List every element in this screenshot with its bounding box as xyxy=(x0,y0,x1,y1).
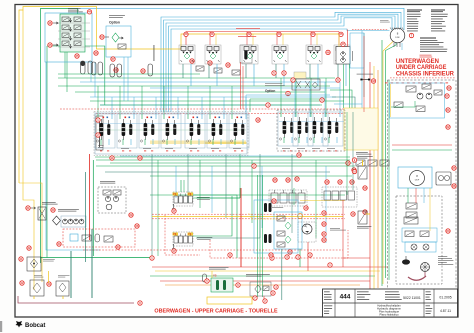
travel motor valves A xyxy=(405,231,414,237)
wire red dashed pilot rail B xyxy=(152,218,345,220)
bottom cluster 2 valve xyxy=(263,286,269,291)
cylinder holding valve cluster 6 xyxy=(334,45,350,64)
svg-text:UNTERWAGEN: UNTERWAGEN xyxy=(396,59,439,65)
cylinder holding valve cluster 3 xyxy=(242,45,258,64)
wire drop below bank 7 xyxy=(225,154,227,218)
svg-text:DDF: DDF xyxy=(395,37,400,39)
uc hline green xyxy=(392,149,452,151)
legend column 1 lines xyxy=(407,13,421,16)
wire green right vertical 2 xyxy=(388,80,390,280)
option arrow xyxy=(119,37,123,39)
joystick label right xyxy=(197,236,212,239)
red circle rv xyxy=(346,161,350,165)
swing motor circle xyxy=(302,224,312,234)
wire cyan corner loop xyxy=(246,95,330,112)
wire red dashed pilot rail xyxy=(60,108,345,110)
wire green joystick link xyxy=(196,154,240,198)
boom swing valve box xyxy=(336,47,350,65)
red circle hpc xyxy=(352,168,356,172)
pump circles xyxy=(63,219,68,224)
red circle bc1 xyxy=(205,279,209,283)
wire green pump vertical xyxy=(92,160,94,256)
valve bank red ticks xyxy=(100,150,102,153)
pilot joystick left xyxy=(173,192,193,206)
red circle bank 12 xyxy=(256,118,260,122)
swing spool pair upper xyxy=(264,203,267,212)
red circle ped2b xyxy=(338,180,342,184)
hp carryover valve xyxy=(358,166,367,179)
svg-text:Plano hidráulico: Plano hidráulico xyxy=(379,313,399,317)
svg-text:4.87.11: 4.87.11 xyxy=(440,309,451,313)
yellow box bottom xyxy=(207,297,252,304)
red circle 45 xyxy=(48,43,52,47)
undercarriage dashed separator xyxy=(390,77,456,79)
accumulator single xyxy=(148,64,153,76)
red circle tm1 xyxy=(452,166,456,170)
valve bank section spool 3 xyxy=(139,114,159,148)
red circle bank L2 xyxy=(96,133,100,137)
red dashed line right xyxy=(83,249,343,251)
red circle bank 13 xyxy=(297,153,301,157)
svg-text:DDF: DDF xyxy=(415,180,420,182)
option 2 toplabel xyxy=(265,83,282,86)
red circle p3 xyxy=(116,245,120,249)
title block hydraulik text xyxy=(357,291,369,294)
swing damper yellow box xyxy=(294,72,306,79)
wire green mid rail 2 xyxy=(58,85,330,87)
red circle swing damper xyxy=(286,91,290,95)
valve bank section spool 1 xyxy=(95,114,115,148)
wire bank top feeders cyan xyxy=(111,97,113,114)
red circle bank 11 xyxy=(110,156,114,160)
red circle maroon return xyxy=(138,301,142,305)
wire yellow bank feed 2 xyxy=(345,139,372,141)
red circle swing col 3 xyxy=(322,232,326,236)
oil cooler xyxy=(38,207,46,220)
travel bank spool 2 xyxy=(293,112,313,146)
red circle swing col 4 xyxy=(322,238,326,242)
wire green right vertical xyxy=(381,40,383,286)
red circle 40 xyxy=(226,63,230,67)
engine label xyxy=(100,180,115,183)
valve bank section spool 2 xyxy=(117,114,137,148)
hp carryover label xyxy=(357,155,373,158)
red circle ped2c xyxy=(350,180,354,184)
wire red right vertical xyxy=(369,62,371,290)
red circle x5 xyxy=(352,158,356,162)
wire cyan option drops xyxy=(123,57,125,101)
orange circle gauge xyxy=(298,214,303,219)
wire red bottom rail xyxy=(152,266,388,268)
wire green left vertical A xyxy=(41,257,151,259)
oil line bend green xyxy=(330,90,352,108)
red circle bl1 xyxy=(19,257,23,261)
red circles on bottom rail xyxy=(150,256,154,260)
swivel label xyxy=(380,19,389,22)
wire red drops to cylinders xyxy=(209,32,211,46)
wire green below bank 1b xyxy=(110,162,352,164)
wire cyan mid rail 3 xyxy=(100,104,320,106)
red circle uc3 xyxy=(447,86,451,90)
wire yellow left margin loop xyxy=(19,7,339,184)
bobcat logo icon xyxy=(16,321,23,328)
red circle 35 xyxy=(75,54,79,58)
travel brake valve 2 xyxy=(406,212,417,218)
wire travel bank feeders cyan xyxy=(294,82,296,112)
swivel port stubs xyxy=(393,43,395,48)
wire green bottom rail xyxy=(150,275,375,277)
red circle cyl 1 xyxy=(184,32,188,36)
cylinder holding valve cluster 1 xyxy=(179,45,195,64)
bottom cluster 2 box xyxy=(250,282,271,296)
red circle swivel xyxy=(409,33,413,37)
shockless glyphs xyxy=(277,216,285,221)
svg-text:Bobcat: Bobcat xyxy=(25,323,45,329)
wire red dashed pilot rail A xyxy=(152,213,345,215)
svg-text:Y4: Y4 xyxy=(188,232,192,236)
pump assembly box xyxy=(61,216,86,227)
cooler label xyxy=(42,201,56,204)
wire yellow swing link xyxy=(300,200,345,202)
wire green joystick loop 1b xyxy=(193,188,240,198)
check valve D2 xyxy=(214,68,222,73)
travel bank dashed box xyxy=(277,110,345,151)
wire yellow right vertical xyxy=(373,66,375,292)
swing damper valve box xyxy=(292,79,320,90)
wire cyan top bundle 3 xyxy=(166,16,395,112)
wire red top distributor rail xyxy=(186,32,339,46)
wire green drop d1 xyxy=(346,112,348,195)
svg-text:444: 444 xyxy=(340,294,351,301)
wire yellow left inner xyxy=(23,10,34,290)
red circle x1 xyxy=(252,164,256,168)
wire green center rail xyxy=(150,194,345,196)
travel motor symbol xyxy=(436,172,451,185)
svg-text:01.2005: 01.2005 xyxy=(439,296,451,300)
svg-text:Y2: Y2 xyxy=(188,192,192,196)
wire red into boomswing xyxy=(346,30,348,47)
wire orange right vertical xyxy=(377,70,379,288)
travel motor circles xyxy=(411,244,417,250)
red circle bl3 xyxy=(47,282,51,286)
red circle bank 10 xyxy=(138,156,142,160)
title block type labels xyxy=(324,291,330,294)
red circle x2b xyxy=(272,71,276,75)
pilot cluster green block xyxy=(60,14,85,52)
page corner shadow bottom-left xyxy=(0,321,2,332)
cylinder holding valve cluster 2 xyxy=(205,45,221,64)
red circle x4 xyxy=(336,78,340,82)
dumbbell mark xyxy=(360,79,362,81)
wire green below bank 1 xyxy=(96,159,350,161)
option valve xyxy=(118,44,126,49)
travel inner dashed box xyxy=(396,196,442,284)
bank internal green line xyxy=(97,129,246,131)
title block page labels xyxy=(426,305,431,308)
wire drop below bank 10 xyxy=(291,154,293,233)
relief valve pair right xyxy=(356,160,365,166)
wire drop below bank 5 xyxy=(199,160,201,208)
wire drop below bank 1 xyxy=(151,154,153,256)
bottom cluster capsule xyxy=(203,274,207,282)
red circle x8 xyxy=(228,253,232,257)
red circle uc1 xyxy=(446,108,450,112)
red circle cooler xyxy=(26,206,30,210)
wire red center vertical 2 xyxy=(240,188,242,267)
bank internal blue line xyxy=(97,123,246,125)
undercarriage outer dashed box xyxy=(388,80,457,290)
uc pump circle 1 xyxy=(417,93,423,99)
red circle bc3 xyxy=(253,296,257,300)
wire red pump vertical xyxy=(89,154,91,240)
travel bank spool 4 xyxy=(323,112,343,146)
valve bank section spool 7 xyxy=(229,114,249,148)
red circle tm3 xyxy=(363,186,367,190)
wire cyan top bundle 4 xyxy=(169,18,393,112)
wire cyan left vertical xyxy=(46,62,100,250)
title block valid-from text xyxy=(385,291,399,294)
travel maroon line xyxy=(424,272,426,276)
wire drop below bank 3 xyxy=(175,166,177,198)
bottom cluster 1 green box xyxy=(211,278,233,292)
red circle boomswing xyxy=(341,42,345,46)
red circle 36b xyxy=(114,68,118,72)
legend block 3 lines xyxy=(420,39,437,42)
red circle bc4 xyxy=(271,291,275,295)
pilot valve symbols xyxy=(82,235,91,241)
red circle engine xyxy=(129,213,133,217)
wire yellow into boomswing xyxy=(338,34,340,47)
wire green left vertical B xyxy=(46,46,48,258)
wire red dashed pilot rail 2 xyxy=(96,113,345,115)
travel maroon hose xyxy=(408,276,426,280)
title block date labels xyxy=(426,291,431,294)
title block benennung labels xyxy=(324,305,332,308)
red circle 46 xyxy=(48,21,52,25)
wire red cluster2 drop xyxy=(263,296,265,303)
option diamond xyxy=(112,33,119,42)
red circle 37 xyxy=(111,57,115,61)
boomswing vertical label xyxy=(351,51,354,61)
pilot block inner lines xyxy=(58,22,90,24)
wire green mid rail 1 xyxy=(58,77,335,79)
red circle cyl 4 xyxy=(277,32,281,36)
red circle cyl 6 xyxy=(339,32,343,36)
bottom cluster 1 label xyxy=(209,266,229,269)
wire teal pump vertical xyxy=(84,172,86,262)
pilot cluster outer cyan box xyxy=(45,13,92,62)
legend column 2 lines xyxy=(431,13,448,16)
red circle sp1 xyxy=(272,199,276,203)
wire teal joystick link xyxy=(196,154,260,238)
wire red dashed center xyxy=(210,230,348,258)
red circle 39 xyxy=(208,61,212,65)
swing spool pair lower xyxy=(264,234,267,243)
legend block 3 red lines xyxy=(420,54,432,57)
legend column 1 header xyxy=(407,10,422,11)
travel motor black unit xyxy=(402,259,410,264)
wire red center branch xyxy=(343,257,370,259)
wire green below bank 2b xyxy=(150,175,352,177)
return filter 1 xyxy=(30,280,44,296)
red circle x7 xyxy=(328,263,332,267)
breather unit xyxy=(56,281,69,296)
oil cooler label top xyxy=(357,73,374,76)
red circle engine 2 xyxy=(135,224,139,228)
shockless diamonds xyxy=(285,222,291,229)
swivel joint circle xyxy=(390,28,405,43)
wire teal below bank xyxy=(105,171,330,173)
wire cyan mid rail 1 xyxy=(80,81,340,83)
red circle 36 xyxy=(94,51,98,55)
accumulator pair 3 xyxy=(110,64,115,77)
option label lines xyxy=(109,14,125,17)
uc pump cyan box xyxy=(390,83,445,118)
wire green joystick loop 1 xyxy=(193,195,237,258)
travel bank spool 1 xyxy=(278,112,298,146)
return filter 1 label xyxy=(34,274,42,277)
valve bank top marks xyxy=(103,117,105,119)
svg-text:CHASSIS INFERIEUR: CHASSIS INFERIEUR xyxy=(396,72,455,78)
swing cyan box xyxy=(254,200,298,253)
wire cyan feeder cluster D xyxy=(361,31,363,105)
red circle joy0 xyxy=(172,209,176,213)
wire green elbow xyxy=(47,46,105,105)
wire cyan top rail xyxy=(78,8,404,30)
red circle cyl 2 xyxy=(210,32,214,36)
wire teal drop d2 xyxy=(352,112,354,190)
aux relief valve low xyxy=(358,211,367,224)
wire maroon tank return xyxy=(18,296,134,303)
wire red vertical mid xyxy=(363,36,365,112)
high pressure label xyxy=(356,151,368,154)
travel motor cyan box B xyxy=(405,242,436,252)
red circle ped2a xyxy=(325,180,329,184)
uc relief pair xyxy=(394,102,403,108)
valve bank dashed outline xyxy=(94,112,248,156)
wire teal feeder cluster D xyxy=(363,33,365,97)
red circle tm2 xyxy=(452,184,456,188)
bank yellow strip xyxy=(150,141,246,145)
wire yellow bottom rail xyxy=(155,270,380,272)
wire green boomswing drop 1 xyxy=(343,64,345,108)
valve bank outer box xyxy=(95,113,247,154)
wire green mid rail 6 xyxy=(100,104,322,106)
wire bank top feeders green xyxy=(97,86,99,114)
wire green swivel diag xyxy=(386,43,397,278)
red circle ped2 xyxy=(286,178,290,182)
relief valve block bl xyxy=(27,257,41,271)
valve bank inlet block xyxy=(96,116,103,150)
red label top rail 1 xyxy=(236,27,260,30)
red circle ped3 xyxy=(295,177,299,181)
red circle swing left xyxy=(304,206,308,210)
wire cyan top bundle 1 xyxy=(161,12,401,112)
oil line bend cyan xyxy=(334,104,362,108)
title block frame xyxy=(323,289,458,317)
wire drop below bank 8 xyxy=(251,160,253,223)
wire drop below bank 6 xyxy=(211,166,213,213)
wire green boomswing drop 2 xyxy=(348,64,350,108)
red circle 37b xyxy=(141,69,145,73)
travel motor cyan box A xyxy=(402,228,437,242)
wire green mid rail 4 xyxy=(90,100,344,102)
red circle p1 xyxy=(57,242,61,246)
red circle dumbbell xyxy=(371,79,375,83)
red circle ped1 xyxy=(273,178,277,182)
pilot joystick right xyxy=(173,232,193,246)
aux relief label xyxy=(357,225,371,228)
red circle x5b xyxy=(352,169,356,173)
valve bank inlet marks xyxy=(98,144,104,147)
pilot block arrows xyxy=(69,18,71,22)
svg-text:Option: Option xyxy=(109,21,120,25)
red circle cyl 5 xyxy=(311,32,315,36)
pump label xyxy=(58,208,79,211)
pilot block valves xyxy=(62,17,69,22)
vertical label bundle xyxy=(153,45,156,61)
red circle p2 xyxy=(27,246,31,250)
wire red bottom rail 2 xyxy=(160,280,370,282)
red circle bc5 xyxy=(274,285,278,289)
wire green below bank 2 xyxy=(96,165,355,167)
svg-text:Y3: Y3 xyxy=(213,274,217,278)
legend block 3 header xyxy=(420,38,436,39)
travel gearbox circle xyxy=(421,263,430,272)
cluster D cyan box xyxy=(350,33,364,68)
wire cyan mid rail 2 xyxy=(90,96,336,98)
cylinder holding valve cluster 4 xyxy=(272,45,288,64)
accumulator pair 1 xyxy=(81,61,86,74)
red circle bl2 xyxy=(20,281,24,285)
svg-text:OBERWAGEN - UPPER CARRIAGE - T: OBERWAGEN - UPPER CARRIAGE - TOURELLE xyxy=(154,309,278,315)
wire green mid rail 5 xyxy=(58,73,200,75)
engine symbols xyxy=(103,190,111,195)
option cyan box xyxy=(106,26,131,57)
wire green mid rail 3 xyxy=(75,91,325,93)
wire yellow left lower xyxy=(19,183,42,282)
svg-text:Option: Option xyxy=(265,89,275,93)
bottom cluster 2 label xyxy=(246,273,270,276)
wire red center vertical xyxy=(342,200,344,267)
red circle tm5 xyxy=(363,210,367,214)
breather label xyxy=(58,274,70,277)
pedal valve cluster 2 xyxy=(322,187,357,207)
boom swing diamonds xyxy=(340,51,346,57)
swing drop wires xyxy=(299,249,301,267)
red circle pump xyxy=(51,208,55,212)
travel brake valve 1 xyxy=(406,203,417,209)
pedal valve cluster xyxy=(269,190,307,206)
red circle sp2 xyxy=(269,253,273,257)
travel bank spool 3 xyxy=(308,112,328,146)
wire teal swing drop xyxy=(281,249,283,300)
wire orange bottom rail xyxy=(165,284,360,286)
joystick label left xyxy=(197,196,210,199)
wire green joystick verts xyxy=(180,180,182,192)
red circle sw3 xyxy=(288,250,292,254)
uc pump circle 2 xyxy=(426,93,432,99)
pale yellow box travel xyxy=(344,108,378,150)
red circle swing col 1 xyxy=(322,211,326,215)
red circle bc2 xyxy=(236,283,240,287)
red circle topleft xyxy=(87,10,91,14)
uc valve rects top xyxy=(406,86,416,92)
red circle swing col 2 xyxy=(322,222,326,226)
wire yellow dashed swing xyxy=(248,214,279,219)
wire drop below bank 4 xyxy=(187,154,189,203)
shockless cyan box xyxy=(274,212,302,249)
